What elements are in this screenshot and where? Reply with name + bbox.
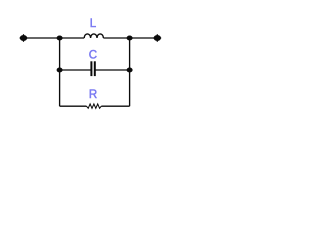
wire bottom-left: left rail to resistor: [60, 105, 87, 107]
junction: middle-left node: [57, 68, 63, 73]
inductor L: [84, 18, 103, 38]
wire top-right: inductor to right junction: [103, 37, 129, 39]
svg-text:R: R: [89, 89, 97, 101]
wire top-left: left terminal to left junction: [24, 37, 60, 39]
wire left rail (vertical): [59, 38, 61, 106]
node: right output terminal: [153, 34, 161, 42]
wire middle-right: capacitor to right rail: [95, 69, 130, 71]
wire right rail (vertical): [129, 38, 131, 106]
wire top: left junction to inductor: [60, 37, 85, 39]
wire: right junction to right terminal: [130, 37, 158, 39]
junction: top-right node: [127, 36, 133, 41]
junction: middle-right node: [127, 68, 133, 73]
wire bottom-right: resistor to right rail: [101, 105, 129, 107]
junction: top-left node: [57, 36, 63, 41]
svg-text:L: L: [90, 18, 97, 30]
svg-text:C: C: [89, 50, 97, 62]
capacitor C: [89, 50, 97, 76]
wire middle-left: left rail to capacitor: [60, 69, 92, 71]
resistor R: [87, 89, 102, 108]
node: left input terminal: [20, 34, 28, 42]
